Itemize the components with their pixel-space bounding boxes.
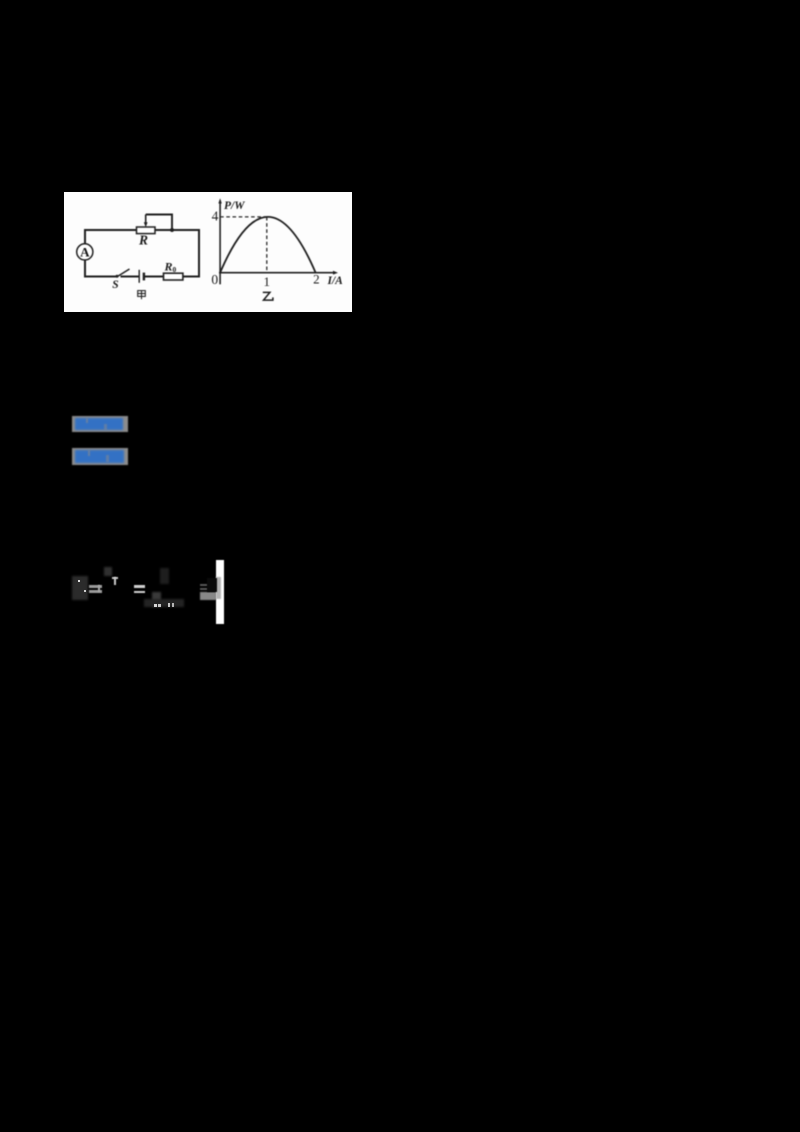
svg-text:S: S <box>112 279 118 291</box>
wire left lower <box>84 260 86 278</box>
wire top right <box>155 229 199 231</box>
rheostat slider loop wire <box>146 215 172 231</box>
svg-text:P/W: P/W <box>224 200 245 212</box>
faint equals sign 3 <box>200 584 208 586</box>
rheostat slider arrow <box>145 215 147 224</box>
wire switch to battery <box>121 276 140 278</box>
faint T mark <box>112 577 118 579</box>
faint formula fragment P2 blob <box>72 576 88 600</box>
faint equals sign 2 <box>134 585 145 588</box>
faint numerator blob <box>104 567 112 576</box>
faint fraction denominator blob <box>152 592 161 607</box>
white figure panel <box>64 192 352 312</box>
svg-text:4: 4 <box>212 208 219 223</box>
junction node dot <box>170 228 174 232</box>
label jia (甲) drawn glyph <box>138 291 146 300</box>
svg-text:1: 1 <box>264 274 271 289</box>
P-I parabola curve <box>220 217 316 273</box>
battery long plate <box>138 270 140 283</box>
bright specks in denominator <box>154 604 157 607</box>
svg-text:R0: R0 <box>164 260 177 275</box>
analysis tag box 2 <box>72 448 128 465</box>
resistor R (rheostat body) <box>137 227 156 234</box>
gray notch on caret <box>216 577 221 599</box>
white caret bar <box>216 560 224 624</box>
wire left upper <box>84 229 86 244</box>
wire R0 to right <box>183 276 200 278</box>
wire right vertical <box>198 229 200 277</box>
svg-text:I/A: I/A <box>327 275 344 287</box>
dashed guide horizontal P=4 <box>220 216 267 218</box>
switch S pivot dot <box>116 275 119 278</box>
graph x-axis <box>219 272 333 274</box>
svg-text:R: R <box>138 233 148 248</box>
resistor R0 body <box>164 273 183 280</box>
gray blob left of caret <box>200 592 216 600</box>
svg-text:A: A <box>80 244 90 259</box>
ammeter A1 circle <box>77 244 93 260</box>
graph y-axis <box>219 201 221 285</box>
faint numerator blob 2 <box>160 568 169 584</box>
svg-text:2: 2 <box>313 272 320 287</box>
faint tick after equals <box>98 585 100 592</box>
dashed guide vertical I=1 <box>266 217 268 273</box>
label yi (乙) drawn glyph <box>263 292 273 300</box>
wire top left <box>85 229 137 231</box>
switch S blade <box>117 269 130 277</box>
wire battery to R0 <box>145 276 164 278</box>
battery short plate <box>143 273 145 281</box>
faint equals sign 1 <box>89 585 102 588</box>
wire bottom to switch <box>84 276 117 278</box>
dark mark over gray blob <box>207 578 217 592</box>
answer tag box 1 <box>72 416 128 432</box>
svg-text:0: 0 <box>211 272 218 287</box>
